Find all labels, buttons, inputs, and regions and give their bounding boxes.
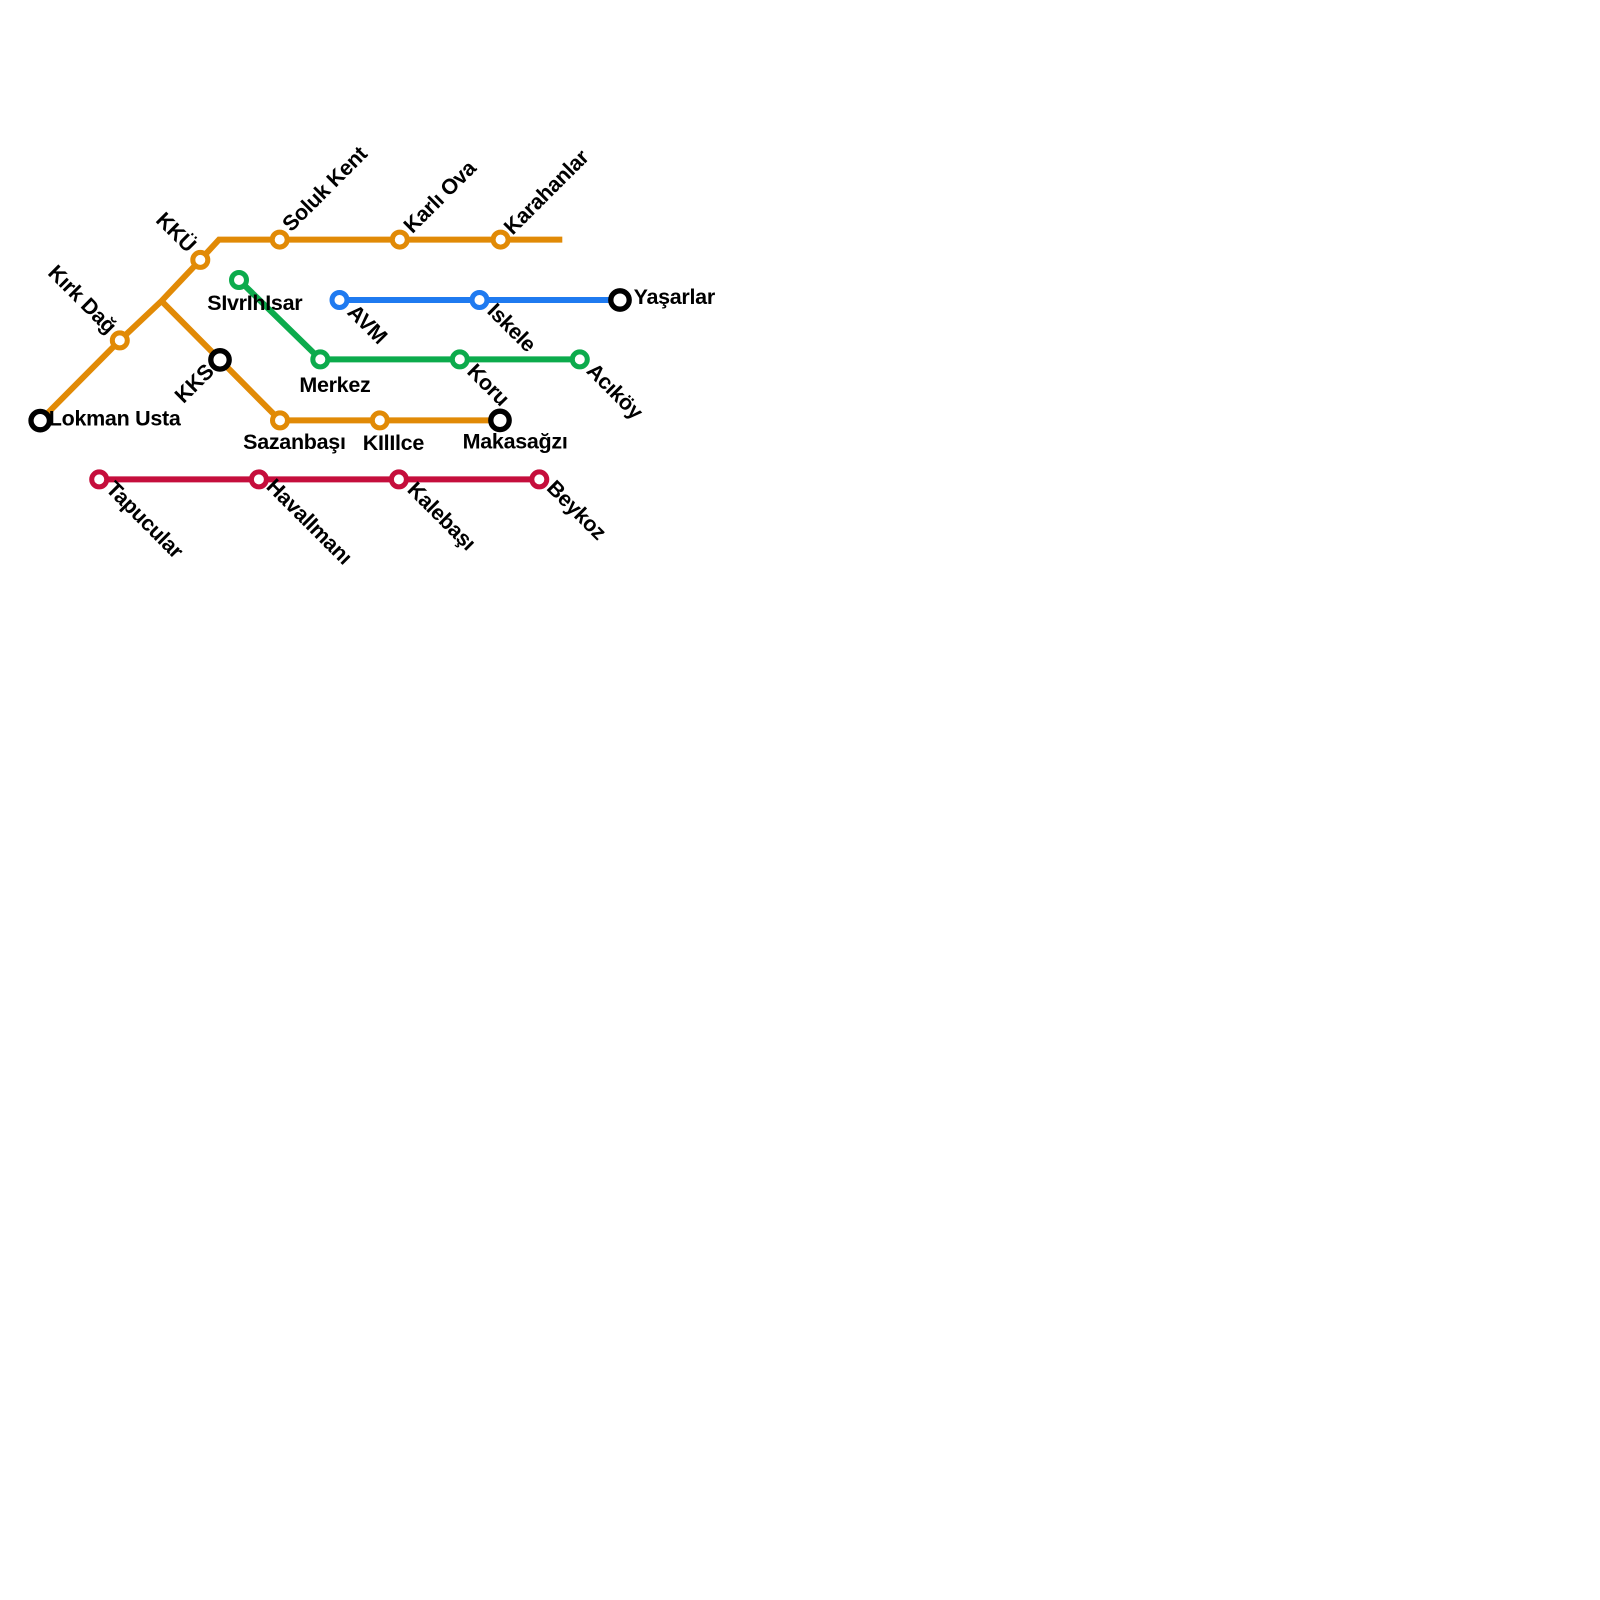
station Sivrihisar [232, 273, 247, 288]
interchange Makasagzi [491, 411, 509, 429]
svg-text:Iskele: Iskele [483, 299, 541, 357]
station Kalebasi [391, 472, 406, 487]
station Merkez [313, 352, 328, 367]
station Koru [452, 352, 467, 367]
orange line branch: junction to Makasagzi [162, 301, 501, 420]
svg-text:Kırk Dağ: Kırk Dağ [43, 260, 121, 338]
svg-text:Karahanlar: Karahanlar [499, 144, 594, 239]
station Kilince [372, 413, 387, 428]
svg-text:Acıköy: Acıköy [582, 358, 648, 424]
station Kirk Dag [112, 333, 127, 348]
svg-text:Lokman Usta: Lokman Usta [49, 407, 182, 431]
interchange Lokman Usta [31, 411, 49, 429]
interchange Yasarlar [611, 291, 629, 309]
svg-text:Soluk Kent: Soluk Kent [278, 142, 372, 236]
svg-text:Sazanbaşı: Sazanbaşı [243, 430, 345, 454]
station Sazanbasi [273, 413, 288, 428]
svg-text:Koru: Koru [462, 359, 514, 411]
station Tapucular [92, 472, 107, 487]
station AVM [332, 293, 347, 308]
orange line: Lokman Usta to Karahanlar end [40, 240, 562, 421]
station Soluk Kent [272, 232, 287, 247]
svg-text:KKÜ: KKÜ [151, 207, 201, 257]
svg-text:HavalImanı: HavalImanı [262, 474, 357, 569]
svg-text:Merkez: Merkez [299, 373, 370, 397]
svg-text:Kalebaşı: Kalebaşı [403, 477, 481, 555]
svg-text:Beykoz: Beykoz [542, 476, 611, 545]
station Karli Ova [392, 232, 407, 247]
svg-text:Karlı Ova: Karlı Ova [399, 155, 482, 238]
red line: Tapucular to Beykoz [99, 476, 539, 482]
station KKU [193, 252, 208, 267]
svg-text:Tapucular: Tapucular [101, 477, 188, 564]
station Acikoy [572, 352, 587, 367]
svg-text:Makasağzı: Makasağzı [463, 429, 568, 453]
blue line: AVM to Yasarlar [340, 297, 621, 303]
station Beykoz [532, 472, 547, 487]
interchange KKS [211, 351, 229, 369]
svg-text:Yaşarlar: Yaşarlar [634, 285, 716, 309]
station Iskele [472, 293, 487, 308]
svg-text:AVM: AVM [343, 300, 392, 349]
green line: Sivrihisar to Acikoy [239, 280, 580, 359]
station Havalimani [251, 472, 266, 487]
station Karahanlar [493, 232, 508, 247]
svg-text:KIlIlce: KIlIlce [363, 431, 425, 455]
svg-text:SIvrIhIsar: SIvrIhIsar [207, 291, 303, 315]
